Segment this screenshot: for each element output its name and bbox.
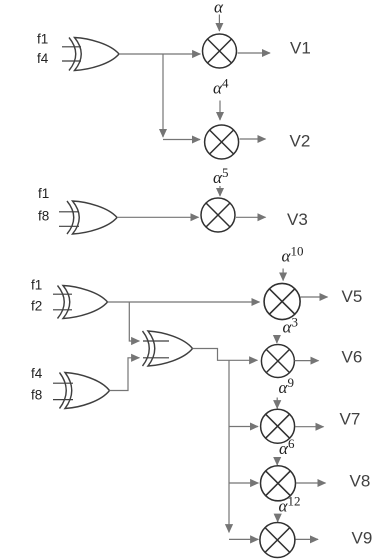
- svg-text:V1: V1: [290, 39, 311, 58]
- svg-text:V8: V8: [350, 472, 371, 491]
- svg-text:V9: V9: [352, 529, 373, 548]
- wire M7 output: [295, 426, 324, 428]
- wire M5 output: [301, 296, 328, 298]
- wire M8 output: [296, 482, 326, 484]
- wire alpha4 into M2: [219, 101, 221, 121]
- svg-text:α: α: [214, 0, 224, 17]
- svg-text:V7: V7: [340, 410, 361, 429]
- wire long vertical branch down from node x229: [228, 360, 230, 532]
- svg-text:f1: f1: [31, 278, 42, 293]
- wire M3 output: [236, 216, 266, 218]
- XOR gate G5 (combines G3 and G4): [143, 331, 193, 366]
- multiplier M9: [260, 522, 295, 557]
- wire branch down from node at x163: [162, 54, 164, 137]
- wire f1 input stub: [62, 46, 81, 48]
- svg-text:V2: V2: [290, 132, 311, 151]
- multiplier M7: [261, 409, 295, 443]
- wire M6 output: [295, 360, 319, 362]
- svg-text:V3: V3: [287, 210, 308, 229]
- wire branch into multiplier M2: [163, 139, 200, 141]
- wire f4 stub gate4: [53, 382, 73, 384]
- wire G5 upper input stub: [143, 340, 169, 342]
- wire G4 output up into G5 lower input: [110, 358, 140, 391]
- wire G1 output to multiplier M1: [119, 53, 200, 55]
- wire alpha3 into M6: [276, 336, 278, 344]
- wire M9 output: [296, 538, 319, 540]
- svg-text:f1: f1: [37, 32, 48, 47]
- wire f1 stub gate3: [53, 293, 72, 295]
- svg-text:V6: V6: [342, 348, 363, 367]
- wire M2 output: [240, 138, 266, 140]
- wire G2 output to M3: [117, 216, 199, 218]
- wire f8 stub gate4: [53, 399, 73, 401]
- wire branch into M8: [229, 482, 258, 484]
- wire G5 lower input stub: [143, 357, 169, 359]
- wire f4 input stub: [62, 60, 81, 62]
- wire alpha6 into M8: [276, 458, 278, 466]
- svg-text:f8: f8: [31, 388, 42, 403]
- wire f1 stub gate2: [59, 211, 79, 213]
- wire alpha10 into M5: [282, 269, 284, 281]
- multiplier M5: [264, 283, 300, 319]
- multiplier M2: [205, 125, 239, 159]
- wire alpha12 into M9: [277, 515, 279, 522]
- XOR gate G4 (f4 xor f8): [60, 373, 110, 409]
- wire branch from G3 output down into G5 upper input: [129, 302, 139, 341]
- svg-text:f8: f8: [38, 209, 49, 224]
- XOR gate G3 (f1 xor f2): [58, 286, 108, 319]
- wire f8 stub gate2: [59, 225, 79, 227]
- wire branch into M7: [229, 426, 258, 428]
- multiplier M3: [201, 198, 235, 232]
- svg-text:V5: V5: [342, 287, 363, 306]
- multiplier M8: [260, 466, 295, 501]
- multiplier M1: [203, 34, 237, 68]
- svg-text:f4: f4: [31, 366, 43, 381]
- wire alpha9 into M7: [276, 398, 278, 409]
- wire alpha into M1: [218, 15, 220, 32]
- svg-text:f4: f4: [37, 51, 49, 66]
- wire M1 output: [238, 52, 271, 54]
- wire f2 stub gate3: [53, 309, 72, 311]
- XOR gate G1 (f1 xor f4): [69, 38, 119, 71]
- multiplier M6: [261, 345, 294, 378]
- wire branch into M9: [229, 538, 258, 540]
- wire G5 output steps down to M6: [193, 349, 258, 361]
- wire alpha5 into M3: [219, 186, 221, 196]
- svg-text:f1: f1: [38, 186, 49, 201]
- svg-text:f2: f2: [31, 299, 42, 314]
- XOR gate G2 (f1 xor f8): [67, 201, 117, 234]
- wire G3 output to M5: [108, 301, 260, 303]
